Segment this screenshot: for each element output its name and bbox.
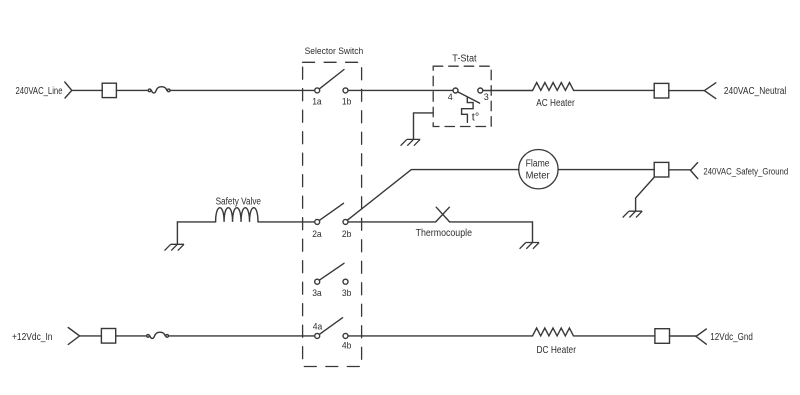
svg-text:+12Vdc_In: +12Vdc_In [12,332,53,343]
svg-text:3b: 3b [342,288,352,299]
svg-text:DC Heater: DC Heater [537,345,577,356]
svg-text:T-Stat: T-Stat [452,53,476,64]
svg-text:1b: 1b [342,96,352,107]
svg-text:Thermocouple: Thermocouple [416,228,473,239]
svg-text:Selector Switch: Selector Switch [305,46,364,56]
svg-text:2b: 2b [342,229,352,240]
svg-text:1a: 1a [312,96,322,107]
svg-text:4b: 4b [342,341,352,352]
svg-text:240VAC_Line: 240VAC_Line [16,86,63,97]
svg-text:240VAC_Safety_Ground: 240VAC_Safety_Ground [703,167,788,177]
svg-text:240VAC_Neutral: 240VAC_Neutral [724,86,786,97]
svg-text:t°: t° [472,112,479,124]
svg-text:Meter: Meter [526,171,551,182]
svg-text:4: 4 [448,92,453,102]
svg-text:AC Heater: AC Heater [536,98,575,109]
svg-text:Flame: Flame [526,159,550,170]
svg-text:12Vdc_Gnd: 12Vdc_Gnd [710,332,753,343]
svg-text:3: 3 [484,92,489,102]
svg-text:Safety Valve: Safety Valve [216,196,262,207]
svg-text:2a: 2a [312,229,322,240]
svg-text:4a: 4a [313,322,323,333]
svg-text:3a: 3a [312,288,322,299]
